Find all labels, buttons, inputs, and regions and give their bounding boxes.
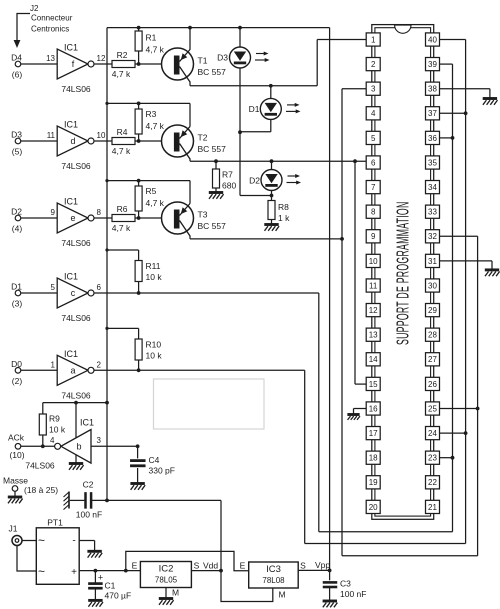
node rail T2 feed xyxy=(105,102,108,105)
transistor T3 xyxy=(162,202,227,236)
svg-text:+: + xyxy=(98,573,103,583)
wire pin1 link xyxy=(317,40,366,86)
pin 20 xyxy=(366,500,380,513)
pin 7 xyxy=(366,181,380,194)
wire J1 center xyxy=(22,540,36,542)
wire gate a out xyxy=(94,369,305,371)
svg-text:BC 557: BC 557 xyxy=(198,221,227,231)
svg-text:470 µF: 470 µF xyxy=(105,591,132,601)
pin 25 xyxy=(426,402,440,415)
wire Vpp vertical rail xyxy=(329,28,331,571)
svg-text:(3): (3) xyxy=(12,299,23,309)
svg-text:78L08: 78L08 xyxy=(262,576,285,585)
svg-text:M: M xyxy=(279,590,286,600)
svg-text:4,7 k: 4,7 k xyxy=(112,146,131,156)
pin 29 xyxy=(426,304,440,317)
svg-text:14: 14 xyxy=(369,355,378,364)
connector J2 label arrow xyxy=(14,4,73,48)
svg-text:4: 4 xyxy=(50,436,55,445)
svg-text:R10: R10 xyxy=(146,340,162,350)
pin 14 xyxy=(366,353,380,366)
svg-text:39: 39 xyxy=(428,60,437,69)
svg-text:6: 6 xyxy=(97,283,102,292)
pin 2 xyxy=(366,58,380,71)
pin 23 xyxy=(426,451,440,464)
svg-text:4,7 k: 4,7 k xyxy=(112,223,131,233)
wire IC2 out xyxy=(191,570,221,572)
wire R8 down xyxy=(271,220,273,224)
socket body inner xyxy=(375,28,431,516)
svg-text:IC1: IC1 xyxy=(64,43,78,53)
svg-text:IC2: IC2 xyxy=(159,564,174,575)
wire ACk xyxy=(21,445,55,447)
svg-text:SUPPORT DE PROGRAMMATION: SUPPORT DE PROGRAMMATION xyxy=(392,201,412,345)
svg-text:D3: D3 xyxy=(217,53,228,63)
ground R8 xyxy=(264,225,279,231)
wire gate b power xyxy=(75,403,77,438)
svg-text:M: M xyxy=(172,588,179,598)
node R5/R6 xyxy=(137,216,141,220)
node rail R10 feed xyxy=(105,327,108,330)
wire T3 emitter feed xyxy=(107,180,190,182)
svg-text:D1: D1 xyxy=(249,104,260,114)
inverter IC1e xyxy=(11,197,101,249)
svg-text:4,7 k: 4,7 k xyxy=(112,69,131,79)
svg-text:IC1: IC1 xyxy=(64,197,78,207)
svg-text:D2: D2 xyxy=(249,176,260,186)
node rail/R9wire xyxy=(105,401,109,405)
svg-text:IC1: IC1 xyxy=(80,418,94,428)
wire T1 collector xyxy=(190,82,317,86)
LED D3 xyxy=(217,47,250,68)
pin 34 xyxy=(426,181,440,194)
wire E feed xyxy=(126,551,249,570)
inverter IC1a xyxy=(11,349,101,401)
capacitor C2 xyxy=(70,480,102,520)
svg-text:74LS06: 74LS06 xyxy=(61,238,91,248)
pin 9 xyxy=(366,230,380,243)
svg-text:23: 23 xyxy=(428,454,437,463)
wire pin39 link xyxy=(440,64,453,532)
wire R9 top feed xyxy=(43,402,107,404)
wire Vpp top rail xyxy=(107,27,330,29)
svg-text:16: 16 xyxy=(369,404,378,413)
node R1 top xyxy=(137,26,141,30)
terminal ACk xyxy=(8,432,25,460)
svg-text:100 nF: 100 nF xyxy=(340,589,366,599)
wire Masse gnd xyxy=(14,491,16,496)
svg-text:7: 7 xyxy=(371,183,376,192)
svg-text:25: 25 xyxy=(428,404,437,413)
node pin36 xyxy=(451,136,455,140)
svg-text:R8: R8 xyxy=(278,202,289,212)
svg-text:27: 27 xyxy=(428,355,437,364)
connector J1 xyxy=(9,524,22,546)
pin 17 xyxy=(366,427,380,440)
inverter IC1c xyxy=(11,272,101,324)
svg-text:31: 31 xyxy=(428,257,437,266)
svg-text:BC 557: BC 557 xyxy=(198,67,227,77)
wire bus B3 xyxy=(342,89,478,556)
svg-text:BC 557: BC 557 xyxy=(198,144,227,154)
svg-text:R9: R9 xyxy=(49,414,60,424)
faint gray box xyxy=(154,379,265,429)
D1 arrows xyxy=(286,103,301,114)
pin 19 xyxy=(366,476,380,489)
svg-text:1: 1 xyxy=(51,360,56,369)
svg-text:T1: T1 xyxy=(198,56,208,66)
wire gate c out xyxy=(94,292,319,294)
svg-text:R7: R7 xyxy=(222,170,233,180)
node D3 rail xyxy=(238,26,242,30)
pin 11 xyxy=(366,279,380,292)
wire pin36 link xyxy=(440,137,453,139)
svg-text:S: S xyxy=(194,561,200,571)
svg-text:4: 4 xyxy=(371,109,376,118)
wire D1 anode xyxy=(270,86,272,99)
transistor T1 xyxy=(162,48,227,82)
transformer PT1 xyxy=(36,518,79,585)
svg-text:~: ~ xyxy=(38,565,45,579)
wire gate a to bus B2 xyxy=(305,370,466,543)
pin 31 xyxy=(426,254,440,267)
svg-text:78L05: 78L05 xyxy=(155,576,178,585)
ground PT1 minus xyxy=(87,551,102,557)
svg-text:b: b xyxy=(76,442,81,452)
wire gate c to bus B1 xyxy=(319,293,453,532)
svg-text:40: 40 xyxy=(428,35,437,44)
wire pin37 link xyxy=(440,112,466,114)
svg-text:680: 680 xyxy=(222,181,236,191)
wire PT1 minus xyxy=(79,541,94,551)
svg-text:Vpp: Vpp xyxy=(315,560,330,570)
node C1 tap xyxy=(94,569,98,573)
inverter IC1b xyxy=(25,418,101,471)
svg-text:34: 34 xyxy=(428,183,437,192)
terminal Masse xyxy=(3,476,58,496)
pin 10 xyxy=(366,254,380,267)
wire R2 to T1 base xyxy=(135,63,175,65)
wire D3 cathode xyxy=(239,68,241,132)
svg-text:D3: D3 xyxy=(11,130,22,140)
wire IC3 out xyxy=(298,569,329,571)
svg-text:PT1: PT1 xyxy=(47,518,63,528)
svg-text:38: 38 xyxy=(428,85,437,94)
svg-text:R1: R1 xyxy=(146,33,157,43)
socket label xyxy=(392,201,412,345)
svg-text:2: 2 xyxy=(97,360,102,369)
svg-text:330 pF: 330 pF xyxy=(149,466,175,476)
wire pin32 link xyxy=(440,236,478,556)
svg-text:J1: J1 xyxy=(9,524,18,534)
ground pin38 xyxy=(483,99,498,105)
node R5 top xyxy=(137,179,141,183)
svg-text:C1: C1 xyxy=(105,581,116,591)
node R9 bottom xyxy=(41,444,45,448)
node pin23 xyxy=(451,456,455,460)
svg-text:R2: R2 xyxy=(117,50,128,60)
wire PT1 plus xyxy=(79,570,140,572)
ground gate b xyxy=(69,464,84,470)
node rail T3 feed xyxy=(105,179,108,182)
node pin6/15 tap xyxy=(353,159,357,163)
svg-text:33: 33 xyxy=(428,208,437,217)
node R3 top xyxy=(137,102,141,106)
svg-text:22: 22 xyxy=(428,478,437,487)
svg-text:74LS06: 74LS06 xyxy=(61,84,91,94)
node pin24 xyxy=(464,431,468,435)
transistor T2 xyxy=(162,125,227,159)
svg-text:74LS06: 74LS06 xyxy=(25,461,55,471)
wire T3 emitter xyxy=(189,181,191,204)
svg-text:9: 9 xyxy=(51,208,56,217)
svg-text:18: 18 xyxy=(369,454,378,463)
wire J1 shell xyxy=(17,546,36,572)
resistor R11 xyxy=(135,261,162,294)
wire pin23 link xyxy=(440,457,453,459)
svg-text:ACk: ACk xyxy=(8,432,25,442)
wire T2 emitter feed xyxy=(107,102,190,104)
wire D1 cathode xyxy=(240,119,271,131)
svg-text:29: 29 xyxy=(428,306,437,315)
svg-text:2: 2 xyxy=(371,60,376,69)
svg-text:5: 5 xyxy=(51,283,56,292)
svg-text:74LS06: 74LS06 xyxy=(61,390,91,400)
svg-text:36: 36 xyxy=(428,134,437,143)
ground pin31 xyxy=(485,270,500,276)
svg-text:C4: C4 xyxy=(149,455,160,465)
svg-text:+: + xyxy=(71,567,77,578)
wire IC3 M xyxy=(221,571,286,602)
svg-text:15: 15 xyxy=(369,380,378,389)
svg-text:3: 3 xyxy=(97,436,102,445)
svg-text:D0: D0 xyxy=(11,359,22,369)
node T1 emitter rail xyxy=(188,26,192,30)
pin 18 xyxy=(366,451,380,464)
svg-text:T3: T3 xyxy=(198,210,208,220)
wire T1 emitter xyxy=(189,28,191,50)
wire gate f out xyxy=(94,63,112,65)
wire T2 collector xyxy=(190,159,366,162)
svg-text:12: 12 xyxy=(97,54,106,63)
svg-text:(5): (5) xyxy=(12,147,23,157)
ground Masse xyxy=(8,497,23,503)
resistor R5 xyxy=(135,181,165,218)
svg-text:c: c xyxy=(71,288,76,298)
node pin37 xyxy=(464,111,468,115)
svg-text:24: 24 xyxy=(428,429,437,438)
svg-text:19: 19 xyxy=(369,478,378,487)
svg-text:C3: C3 xyxy=(340,579,351,589)
wire gate d out xyxy=(94,140,112,142)
wire R6 to T3 base xyxy=(135,217,175,219)
svg-text:10 k: 10 k xyxy=(146,272,163,282)
svg-text:35: 35 xyxy=(428,158,437,167)
regulator IC2 xyxy=(132,561,219,588)
wire R11 feed xyxy=(107,250,139,261)
pin 1 xyxy=(366,33,380,46)
node Vpp out xyxy=(328,569,332,573)
resistor R6 xyxy=(112,204,135,233)
node rail/C2 xyxy=(105,499,109,503)
svg-text:-: - xyxy=(72,536,75,547)
svg-text:E: E xyxy=(132,561,138,571)
svg-text:D1: D1 xyxy=(11,282,22,292)
wire T3 collector xyxy=(190,236,342,239)
inverter IC1f xyxy=(11,43,106,95)
node IC2 E feed xyxy=(124,569,128,573)
svg-text:28: 28 xyxy=(428,331,437,340)
wire pin16 gnd xyxy=(354,409,367,414)
wire led chain down xyxy=(240,132,272,195)
socket body outer xyxy=(372,25,434,520)
svg-text:74LS06: 74LS06 xyxy=(61,161,91,171)
svg-text:11: 11 xyxy=(369,281,378,290)
pin 24 xyxy=(426,427,440,440)
node D1 anode xyxy=(269,84,273,88)
wire D2 anode xyxy=(271,161,273,169)
svg-text:10: 10 xyxy=(97,131,106,140)
ground C3 xyxy=(323,601,338,607)
svg-text:26: 26 xyxy=(428,380,437,389)
pin 27 xyxy=(426,353,440,366)
pin 5 xyxy=(366,131,380,144)
svg-text:20: 20 xyxy=(369,503,378,512)
node led chain xyxy=(238,130,242,134)
wire T2 emitter xyxy=(189,103,191,126)
svg-text:10: 10 xyxy=(369,257,378,266)
node C4 tap xyxy=(136,444,140,448)
svg-text:R4: R4 xyxy=(117,127,128,137)
pin 38 xyxy=(426,82,440,95)
svg-text:R6: R6 xyxy=(117,204,128,214)
svg-text:~: ~ xyxy=(38,533,45,547)
svg-text:a: a xyxy=(70,366,75,376)
wire pin24 link xyxy=(440,432,466,434)
pin 36 xyxy=(426,131,440,144)
svg-text:37: 37 xyxy=(428,109,437,118)
resistor R9 xyxy=(39,403,66,447)
svg-text:4,7 k: 4,7 k xyxy=(146,121,165,131)
resistor R1 xyxy=(135,28,165,64)
node R10 bottom xyxy=(137,368,141,372)
LED D1 xyxy=(249,98,282,119)
svg-text:IC3: IC3 xyxy=(266,564,281,575)
svg-text:100 nF: 100 nF xyxy=(76,510,102,520)
svg-text:C2: C2 xyxy=(83,480,94,490)
resistor R10 xyxy=(135,339,162,370)
resistor R2 xyxy=(112,50,135,79)
svg-text:8: 8 xyxy=(97,208,102,217)
ground C4 xyxy=(130,484,145,490)
svg-text:6: 6 xyxy=(371,158,376,167)
svg-text:R3: R3 xyxy=(146,109,157,119)
node Vdd xyxy=(219,569,223,573)
pin 33 xyxy=(426,205,440,218)
svg-text:17: 17 xyxy=(369,429,378,438)
wire pin31 gnd xyxy=(440,261,493,269)
svg-text:4,7 k: 4,7 k xyxy=(146,45,165,55)
svg-text:21: 21 xyxy=(428,503,437,512)
wire pin25 link xyxy=(440,408,478,410)
svg-text:J2: J2 xyxy=(30,4,39,13)
capacitor C3 xyxy=(323,570,367,600)
svg-text:9: 9 xyxy=(371,232,376,241)
socket notch xyxy=(395,25,411,33)
pin 28 xyxy=(426,328,440,341)
svg-text:(10): (10) xyxy=(9,450,24,460)
ground R7 xyxy=(209,193,224,199)
svg-text:D4: D4 xyxy=(11,53,22,63)
node R7 tap xyxy=(214,159,218,163)
wire IC2 M xyxy=(166,588,179,598)
svg-text:Masse: Masse xyxy=(3,476,28,486)
svg-text:10 k: 10 k xyxy=(146,351,163,361)
node D2/R8 xyxy=(270,194,274,198)
svg-text:D2: D2 xyxy=(11,207,22,217)
node R3/R4 xyxy=(137,139,141,143)
svg-text:IC1: IC1 xyxy=(64,272,78,282)
wire gate e out xyxy=(94,217,112,219)
svg-text:e: e xyxy=(70,213,75,223)
svg-text:4,7 k: 4,7 k xyxy=(146,198,165,208)
svg-text:8: 8 xyxy=(371,208,376,217)
wire D2 cathode xyxy=(271,191,273,201)
node T3/pin3net xyxy=(340,237,344,241)
pin 32 xyxy=(426,230,440,243)
ground IC2 xyxy=(159,599,174,605)
pin 22 xyxy=(426,476,440,489)
wire gate b gnd stub xyxy=(75,455,77,463)
node pin25 xyxy=(476,407,480,411)
svg-text:d: d xyxy=(70,136,75,146)
resistor R4 xyxy=(112,127,135,156)
pin 6 xyxy=(366,156,380,169)
node rail R11 feed xyxy=(105,248,108,251)
node R1/R2 xyxy=(137,62,141,66)
capacitor C2 chassis xyxy=(64,492,70,510)
ground C1 xyxy=(88,600,103,606)
svg-text:11: 11 xyxy=(47,131,56,140)
resistor R7 xyxy=(213,161,237,191)
pin 15 xyxy=(366,377,380,390)
svg-text:(6): (6) xyxy=(12,70,23,80)
pin 40 xyxy=(426,33,440,46)
inverter IC1d xyxy=(11,120,106,172)
svg-text:13: 13 xyxy=(46,54,55,63)
wire C2 to Vdd xyxy=(91,500,221,570)
svg-text:1 k: 1 k xyxy=(278,213,290,223)
capacitor C4 xyxy=(130,446,175,482)
svg-text:32: 32 xyxy=(428,232,437,241)
pin 21 xyxy=(426,500,440,513)
pin 16 xyxy=(366,402,380,415)
svg-text:Vdd: Vdd xyxy=(203,561,218,571)
svg-text:Centronics: Centronics xyxy=(31,25,69,34)
pin 8 xyxy=(366,205,380,218)
wire R4 to T2 base xyxy=(135,140,175,142)
pin 3 xyxy=(366,82,380,95)
resistor R3 xyxy=(135,103,165,141)
D3 arrows xyxy=(255,52,270,63)
node R9 feed xyxy=(74,401,78,405)
node R11 bottom xyxy=(137,291,141,295)
node D2 anode xyxy=(270,159,274,163)
pin 4 xyxy=(366,107,380,120)
svg-text:Connecteur: Connecteur xyxy=(31,14,73,23)
svg-text:10 k: 10 k xyxy=(49,425,66,435)
pin 39 xyxy=(426,58,440,71)
